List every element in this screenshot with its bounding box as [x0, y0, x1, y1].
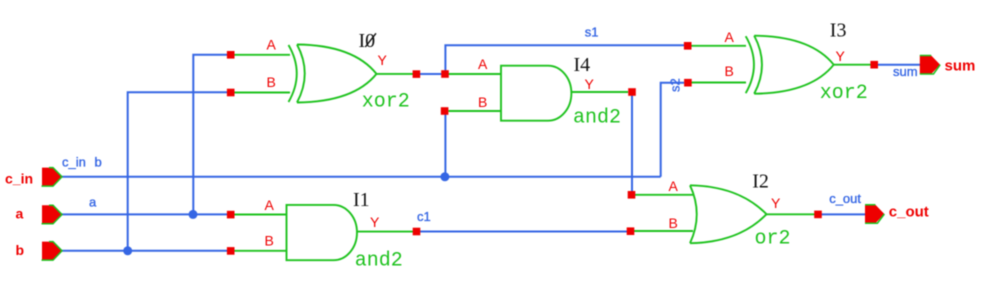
- svg-text:s2: s2: [668, 78, 683, 92]
- svg-text:Y: Y: [836, 48, 846, 64]
- svg-text:B: B: [478, 94, 487, 110]
- svg-text:a: a: [16, 206, 24, 222]
- svg-text:B: B: [725, 63, 734, 79]
- svg-text:b: b: [95, 155, 102, 170]
- svg-text:and2: and2: [573, 107, 621, 130]
- svg-text:Y: Y: [378, 52, 388, 68]
- svg-text:c1: c1: [417, 209, 431, 224]
- svg-text:A: A: [725, 29, 735, 45]
- svg-text:B: B: [265, 233, 274, 249]
- svg-text:Y: Y: [585, 76, 595, 92]
- svg-text:b: b: [16, 242, 25, 258]
- svg-text:s1: s1: [585, 25, 599, 40]
- svg-text:sum: sum: [945, 58, 976, 75]
- svg-text:I4: I4: [574, 54, 591, 76]
- svg-text:I3: I3: [830, 19, 847, 41]
- svg-text:I1: I1: [353, 189, 370, 211]
- svg-text:and2: and2: [355, 250, 403, 273]
- svg-text:I0: I0: [359, 30, 376, 52]
- svg-text:sum: sum: [893, 64, 918, 79]
- svg-text:a: a: [89, 195, 97, 210]
- svg-text:xor2: xor2: [820, 82, 868, 105]
- svg-text:Y: Y: [370, 214, 380, 230]
- svg-text:I2: I2: [752, 170, 769, 192]
- svg-text:c_in: c_in: [62, 155, 86, 170]
- svg-text:A: A: [478, 56, 488, 72]
- svg-text:A: A: [265, 197, 275, 213]
- svg-text:B: B: [267, 74, 276, 90]
- svg-text:or2: or2: [755, 228, 791, 251]
- svg-text:A: A: [669, 178, 679, 194]
- svg-text:c_in: c_in: [5, 171, 33, 187]
- svg-text:A: A: [267, 37, 277, 53]
- svg-text:c_out: c_out: [889, 204, 929, 221]
- svg-text:xor2: xor2: [362, 91, 410, 114]
- svg-text:Y: Y: [771, 195, 781, 211]
- svg-text:B: B: [669, 215, 678, 231]
- svg-text:c_out: c_out: [829, 191, 861, 206]
